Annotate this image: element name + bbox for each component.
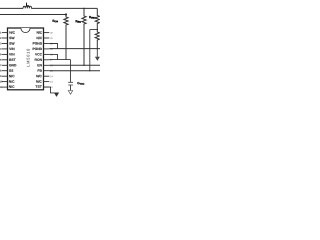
pin numbers right xyxy=(50,32,53,90)
svg-text:RFB1: RFB1 xyxy=(89,15,96,19)
svg-text:N/C: N/C xyxy=(36,31,42,35)
node junction dot VIN/RON xyxy=(65,13,67,15)
resistor RFB1 xyxy=(95,8,99,29)
svg-text:RON: RON xyxy=(35,58,43,62)
wire VCC cap drop xyxy=(70,60,72,83)
svg-text:FB: FB xyxy=(37,69,42,73)
svg-text:9: 9 xyxy=(0,75,2,78)
wire VOUT top rail right segment xyxy=(31,7,97,9)
svg-text:SW: SW xyxy=(9,36,15,40)
svg-text:N/C: N/C xyxy=(36,74,42,78)
svg-text:VIN: VIN xyxy=(9,47,15,51)
node junction dot RFB2/PGND rail xyxy=(97,48,98,49)
svg-text:BST: BST xyxy=(9,58,16,62)
svg-text:7: 7 xyxy=(0,64,2,67)
svg-text:N/C: N/C xyxy=(9,80,15,84)
pin stubs right xyxy=(44,33,50,88)
svg-text:1: 1 xyxy=(0,31,2,34)
svg-text:N/C: N/C xyxy=(9,85,15,89)
ground symbol right xyxy=(96,57,100,60)
wire PGND pin step xyxy=(49,44,57,49)
svg-text:3: 3 xyxy=(0,42,2,45)
svg-text:RON: RON xyxy=(52,19,58,23)
svg-text:PGND: PGND xyxy=(32,47,42,51)
wire PGND stub to ground xyxy=(96,49,98,57)
svg-text:8: 8 xyxy=(0,70,2,73)
capacitor CVCC xyxy=(68,82,73,85)
svg-text:LM5010: LM5010 xyxy=(25,48,30,67)
wire TST to ground xyxy=(44,87,57,93)
svg-text:EN: EN xyxy=(37,63,42,67)
svg-text:N/C: N/C xyxy=(36,80,42,84)
wire EN row xyxy=(49,64,100,66)
svg-text:12: 12 xyxy=(50,86,53,89)
svg-text:22: 22 xyxy=(50,32,53,35)
wire RON row xyxy=(49,59,70,61)
svg-text:N/C: N/C xyxy=(36,36,42,40)
svg-text:GND: GND xyxy=(9,63,17,67)
svg-text:VIN: VIN xyxy=(9,52,15,56)
ground symbol CVCC xyxy=(68,91,72,95)
pin numbers left xyxy=(0,31,3,89)
wire FB tap vertical xyxy=(89,30,91,71)
label L xyxy=(27,3,30,6)
svg-text:4: 4 xyxy=(0,48,2,51)
node junction dot VOUT/REN xyxy=(83,8,85,10)
pin labels left xyxy=(9,31,18,89)
svg-text:SW: SW xyxy=(9,42,15,46)
node junction dot FB divider xyxy=(97,29,99,31)
svg-text:VCC: VCC xyxy=(35,52,43,56)
wire FB row xyxy=(49,70,100,72)
wire CVCC to ground xyxy=(70,85,72,91)
op IC U1 box xyxy=(8,28,44,90)
svg-text:PGND: PGND xyxy=(32,42,42,46)
wire VIN rail xyxy=(0,14,66,16)
wire VOUT top rail left segment xyxy=(0,7,23,9)
pin stubs left xyxy=(2,33,8,88)
pin labels right xyxy=(32,31,43,89)
svg-text:N/C: N/C xyxy=(9,31,15,35)
svg-text:CVCC: CVCC xyxy=(77,81,84,85)
svg-text:N/C: N/C xyxy=(9,74,15,78)
resistor REN xyxy=(82,8,86,65)
svg-text:2: 2 xyxy=(0,37,2,40)
wire PGND rail xyxy=(49,48,100,50)
inductor L xyxy=(23,6,31,8)
wire FB tap horizontal xyxy=(90,29,98,31)
wire VCC pin step xyxy=(49,54,57,59)
svg-text:6: 6 xyxy=(0,59,2,62)
node junction dot EN/REN xyxy=(83,65,84,66)
ground arrow TST filled xyxy=(54,93,59,97)
node junction dot FB line xyxy=(89,70,90,71)
resistor RFB2 xyxy=(95,30,99,49)
svg-text:14: 14 xyxy=(50,75,53,78)
svg-text:13: 13 xyxy=(50,81,53,84)
svg-text:5: 5 xyxy=(0,53,2,56)
svg-text:TST: TST xyxy=(35,85,41,89)
resistor RON xyxy=(64,15,68,60)
IC notch xyxy=(21,28,30,33)
svg-text:21: 21 xyxy=(50,37,53,40)
svg-text:REN: REN xyxy=(75,19,81,23)
